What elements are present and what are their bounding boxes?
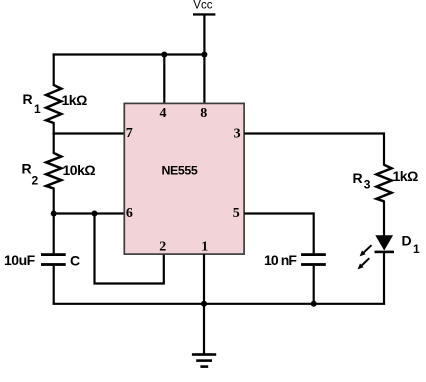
svg-text:10 nF: 10 nF (264, 252, 297, 268)
wire pin 5 (244, 212, 314, 214)
svg-text:3: 3 (364, 178, 371, 192)
node junction dot pin4/top rail (161, 52, 167, 58)
svg-text:1: 1 (201, 239, 208, 254)
node junction dot pin6/pin2 link (92, 211, 98, 217)
wire R1 bottom stub (53, 122, 55, 135)
svg-text:R: R (23, 91, 33, 107)
svg-text:4: 4 (160, 106, 167, 121)
wire left rail R1 to R2 (53, 134, 55, 155)
svg-text:10kΩ: 10kΩ (63, 162, 96, 178)
wire top rail (53, 53, 206, 55)
node junction dot ground/bottom rail (201, 301, 207, 307)
svg-text:D: D (402, 233, 412, 249)
wire pin6 to pin2 U-link (95, 214, 164, 284)
power symbol Vcc (193, 0, 215, 16)
svg-text:10uF: 10uF (4, 252, 36, 268)
svg-text:1: 1 (34, 102, 41, 116)
LED D1 light arrow 2 (358, 258, 370, 269)
wire 10nF to bottom rail (313, 266, 315, 305)
svg-text:5: 5 (233, 206, 240, 221)
resistor R1 (46, 85, 61, 123)
wire pin 4 stub (163, 55, 165, 104)
svg-text:2: 2 (159, 239, 166, 254)
node junction dot left rail/pin6 (51, 211, 57, 217)
IC U1 NE555 body (124, 103, 244, 254)
LED D1 light arrow 1 (360, 245, 372, 256)
label R3 (353, 170, 371, 192)
label R1 (23, 91, 42, 116)
node junction dot 10nF/bottom rail (311, 301, 317, 307)
wire pin 1 stub to bottom rail (203, 254, 205, 303)
svg-text:Vcc: Vcc (193, 0, 212, 12)
svg-text:NE555: NE555 (162, 164, 198, 178)
wire R3 to LED (383, 201, 385, 237)
resistor R3 (376, 165, 391, 202)
svg-text:8: 8 (200, 106, 207, 121)
wire left rail top to R1 (53, 53, 55, 86)
svg-text:1: 1 (413, 242, 420, 256)
wire left rail pin6 to capacitor C (53, 214, 55, 254)
svg-text:2: 2 (32, 174, 39, 188)
wire Vcc stem to pin 8 (203, 14, 205, 103)
LED D1 (375, 235, 395, 253)
wire pin 3 (244, 134, 384, 166)
node junction dot Vcc/top rail (201, 52, 207, 58)
ground (192, 304, 216, 368)
svg-text:7: 7 (126, 126, 133, 141)
svg-text:1kΩ: 1kΩ (62, 92, 88, 108)
resistor R2 (46, 153, 61, 188)
svg-text:R: R (353, 170, 363, 186)
capacitor C plates (41, 253, 66, 266)
svg-text:C: C (70, 252, 80, 268)
svg-text:1kΩ: 1kΩ (393, 168, 419, 184)
label R2 (22, 161, 39, 188)
wire capacitor C to bottom rail (53, 266, 55, 305)
wire bottom rail (53, 303, 386, 305)
wire R2 bottom to pin6 rail (53, 188, 55, 215)
svg-text:R: R (22, 161, 32, 177)
capacitor 10nF plates (301, 253, 326, 266)
svg-text:3: 3 (234, 127, 241, 142)
wire LED to bottom rail (383, 252, 385, 305)
svg-text:6: 6 (126, 206, 133, 221)
label D1 (402, 233, 421, 256)
wire pin5 to 10nF capacitor (313, 212, 315, 253)
wire pin 6 (53, 212, 124, 214)
wire pin 7 (53, 132, 125, 134)
